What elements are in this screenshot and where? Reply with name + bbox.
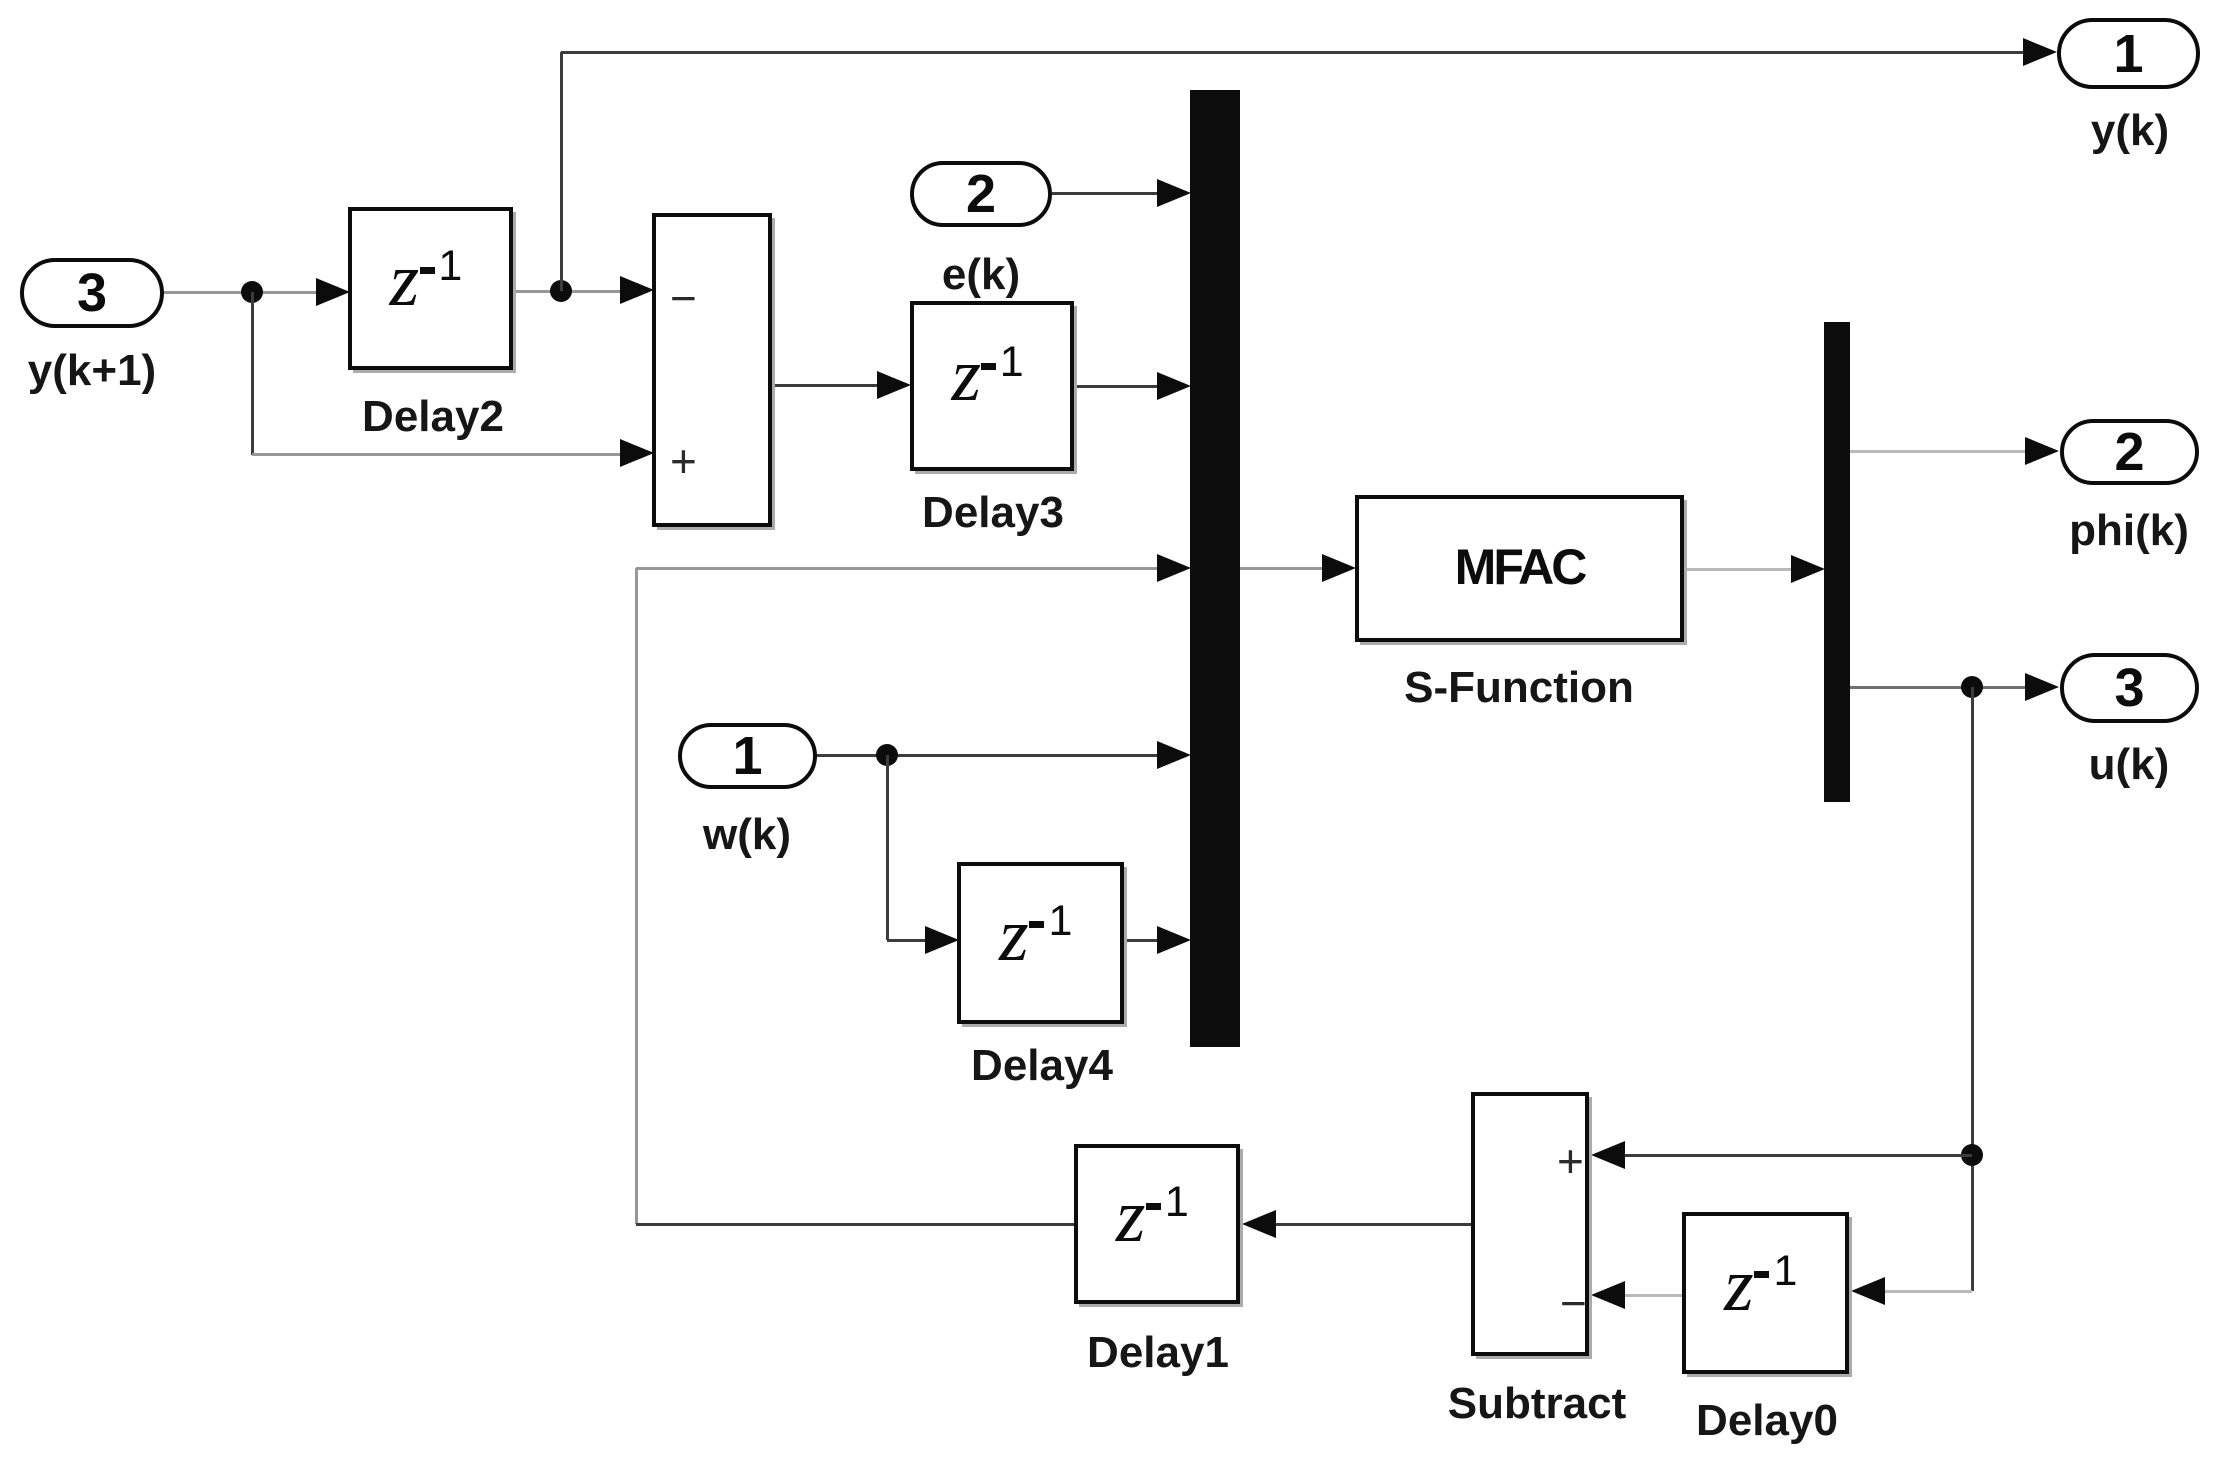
label Delay1 — [858, 1330, 1458, 1376]
node D junction on u(k) — [1961, 676, 1983, 698]
delay block Delay2 — [348, 207, 513, 370]
arrow into outport u(k) — [2025, 673, 2059, 701]
node C junction on w(k) — [876, 744, 898, 766]
wire Delay2 output — [513, 290, 624, 293]
label u(k) — [1829, 742, 2234, 788]
mux bar — [1190, 90, 1240, 1047]
label Delay4 — [742, 1043, 1342, 1089]
arrow into Delay1 — [1242, 1210, 1276, 1238]
arrow Delay3 into mux — [1157, 372, 1191, 400]
delay block Delay4 — [957, 862, 1124, 1024]
arrow into MFAC — [1322, 554, 1356, 582]
wire vertical up to y(k) line — [560, 52, 563, 291]
arrow w(k) into mux — [1157, 741, 1191, 769]
wire Delay1 output to feedback corner — [636, 1223, 1074, 1226]
outport 1 y(k) — [2057, 18, 2200, 89]
arrow into Sum minus input — [620, 276, 654, 304]
label Delay0 — [1467, 1398, 2067, 1444]
label w(k) — [447, 812, 1047, 858]
label Delay3 — [693, 490, 1293, 536]
arrow into Delay4 — [925, 926, 959, 954]
wire junction branch horizontal to Sum plus — [252, 453, 622, 456]
arrow into Subtract minus — [1591, 1281, 1625, 1309]
label S-Function — [1219, 665, 1819, 711]
arrow e(k) into mux — [1157, 179, 1191, 207]
delay block Delay3 — [910, 301, 1074, 471]
wire Delay4 output to mux — [1124, 939, 1158, 942]
wire u(k) feedback vertical — [1971, 687, 1974, 1291]
arrow feedback into mux — [1157, 554, 1191, 582]
arrow into Subtract plus — [1591, 1141, 1625, 1169]
outport 3 u(k) — [2060, 653, 2199, 723]
node B junction after Delay2 — [550, 280, 572, 302]
wire Subtract output to Delay1 — [1274, 1223, 1471, 1226]
node E junction at Subtract plus — [1961, 1144, 1983, 1166]
wire w(k) branch horizontal to Delay4 — [887, 939, 925, 942]
wire feedback horizontal into mux — [636, 567, 1158, 570]
label e(k) — [681, 252, 1281, 298]
wire demux to outport phi(k) — [1850, 450, 2025, 453]
wire w(k) input to mux — [815, 754, 1158, 757]
wire junction down-branch vertical — [251, 292, 254, 455]
sum block Sum1 — [652, 213, 772, 527]
wire into Delay0 input — [1884, 1290, 1972, 1293]
wire top horizontal to y(k) output — [561, 51, 2024, 54]
wire Delay3 output to mux — [1074, 385, 1158, 388]
wire w(k) branch vertical — [886, 755, 889, 940]
label Delay2 — [133, 394, 733, 440]
wire Sum output to Delay3 — [772, 384, 878, 387]
delay block Delay1 — [1074, 1144, 1240, 1304]
inport 3 y(k+1) — [20, 258, 164, 328]
arrow into Delay0 — [1851, 1277, 1885, 1305]
wire demux to outport u(k) — [1850, 686, 2026, 689]
outport 2 phi(k) — [2060, 419, 2199, 485]
arrow into outport y(k) — [2023, 38, 2057, 66]
node A junction on y(k+1) — [241, 281, 263, 303]
wire Delay0 output to Subtract minus — [1625, 1294, 1682, 1297]
delay block Delay0 — [1682, 1212, 1849, 1374]
label y(k) — [1830, 108, 2234, 154]
inport 2 e(k) — [910, 161, 1052, 227]
inport 1 w(k) — [678, 723, 817, 789]
arrow Delay4 into mux — [1157, 926, 1191, 954]
arrow into outport phi(k) — [2025, 437, 2059, 465]
wire mux output to MFAC — [1240, 567, 1323, 570]
wire e(k) input to mux — [1052, 192, 1158, 195]
arrow into demux — [1791, 555, 1825, 583]
label y(k+1) — [0, 348, 392, 394]
label Subtract — [1237, 1381, 1837, 1427]
arrow into Sum plus input — [620, 439, 654, 467]
arrow into Delay3 — [877, 371, 911, 399]
subtract block — [1471, 1092, 1589, 1356]
wire MFAC output to demux — [1684, 568, 1792, 571]
wire input3 to junction — [160, 291, 318, 294]
label phi(k) — [1829, 508, 2234, 554]
demux bar — [1824, 322, 1850, 802]
wire feedback vertical — [635, 568, 638, 1224]
arrow into Delay2 — [316, 278, 350, 306]
wire into Subtract plus — [1625, 1154, 1972, 1157]
s-function block MFAC U1 — [1355, 495, 1684, 642]
